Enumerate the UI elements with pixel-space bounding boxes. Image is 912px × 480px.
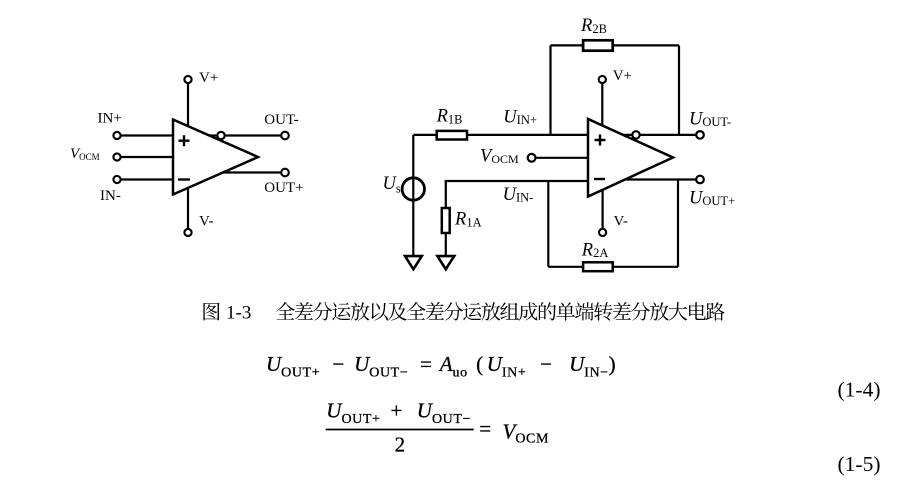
svg-text:R1A: R1A — [454, 210, 482, 230]
wire OUT+ output (A1) — [223, 171, 281, 173]
svg-text:V+: V+ — [199, 70, 218, 86]
wire Us vertical (through source) — [412, 135, 414, 255]
svg-text:V+: V+ — [613, 68, 632, 84]
wire V- supply (A2) — [601, 190, 603, 229]
resistor R2A — [583, 262, 613, 271]
terminal IN+ (A1) — [113, 132, 120, 139]
wire OUT+ output (A2) — [625, 178, 696, 180]
svg-text:V-: V- — [199, 214, 213, 230]
terminal IN- (A1) — [113, 176, 120, 183]
wire bottom feedback horizontal — [548, 266, 678, 268]
wire V- supply (A1) — [187, 188, 189, 229]
inversion bubble on OUT- (A2) — [632, 131, 639, 138]
svg-text:=: = — [479, 417, 491, 441]
ground under Us — [405, 256, 422, 269]
wire node UIN- horizontal — [445, 180, 588, 182]
wire Us to R1B — [413, 134, 436, 136]
svg-text:(1-5): (1-5) — [838, 452, 881, 476]
voltage source Us — [402, 178, 424, 200]
terminal V- (A1) — [184, 229, 191, 236]
wire top feedback down to OUT- — [678, 45, 680, 134]
svg-text:(1-4): (1-4) — [838, 378, 881, 402]
wire feedback node UIN+ up — [549, 45, 551, 134]
wire bottom feedback node UIN- down — [547, 181, 549, 267]
wire V+ supply (A2) — [601, 83, 603, 126]
svg-text:R1B: R1B — [436, 107, 463, 127]
svg-text:V-: V- — [614, 214, 628, 230]
wire IN+ input (A1) — [121, 134, 173, 136]
wire top feedback horizontal — [551, 44, 680, 46]
inversion bubble on OUT- (A1) — [217, 132, 224, 139]
svg-text:VOCM: VOCM — [480, 146, 519, 166]
svg-text:R2B: R2B — [580, 16, 607, 36]
terminal OUT+ (A1) — [281, 169, 289, 177]
wire VOCM input (A1) — [121, 156, 173, 158]
svg-text:VOCM: VOCM — [70, 146, 100, 162]
svg-text:Us: Us — [383, 174, 401, 196]
wire bottom feedback up to OUT+ — [677, 180, 679, 267]
resistor R1A — [442, 208, 450, 233]
terminal OUT- (A1) — [281, 132, 289, 140]
terminal V- (A2) — [599, 229, 606, 236]
svg-text:UIN-: UIN- — [503, 185, 534, 205]
svg-text:R2A: R2A — [581, 241, 609, 261]
svg-text:UOUT++UOUT−: UOUT++UOUT− — [326, 399, 471, 428]
terminal V+ (A2) — [599, 76, 606, 83]
svg-text:OUT+: OUT+ — [264, 180, 303, 196]
caption figure 1-3 (Chinese text as vector paths) — [203, 302, 724, 323]
svg-text:UOUT-: UOUT- — [689, 109, 731, 129]
wire UIN- down through R1A — [445, 181, 447, 255]
ground under R1A — [437, 256, 454, 269]
svg-text:IN+: IN+ — [98, 111, 122, 127]
terminal VOCM (A1) — [113, 153, 120, 160]
wire OUT- output (A2) — [623, 134, 697, 136]
resistor R1B — [437, 131, 467, 140]
op-amp A2 (fully differential) — [588, 119, 673, 197]
terminal UOUT- — [696, 131, 704, 139]
svg-text:UOUT+: UOUT+ — [689, 188, 735, 208]
terminal V+ (A1) — [184, 76, 191, 83]
wire R1B to node UIN+ — [468, 134, 588, 136]
svg-text:2: 2 — [395, 433, 406, 457]
resistor R2B — [583, 40, 613, 50]
svg-text:UIN+: UIN+ — [503, 107, 537, 127]
wire OUT- output (A1) — [209, 134, 281, 136]
op-amp A1 (fully differential) — [173, 120, 258, 195]
terminal VOCM source — [528, 154, 536, 162]
svg-text:VOCM: VOCM — [503, 420, 550, 447]
equation (1-5): (UOUT+ + UOUT-)/2 = VOCM — [326, 399, 549, 457]
wire V+ supply (A1) — [187, 83, 189, 126]
svg-text:UOUT+−UOUT−=Auo(UIN+−UIN−): UOUT+−UOUT−=Auo(UIN+−UIN−) — [266, 352, 616, 381]
svg-text:OUT-: OUT- — [264, 112, 298, 128]
svg-text:IN-: IN- — [100, 188, 121, 204]
terminal UOUT+ — [696, 176, 704, 184]
wire IN- input (A1) — [121, 178, 173, 180]
wire VOCM to A2 — [536, 157, 589, 159]
svg-text:1-3: 1-3 — [226, 303, 251, 324]
